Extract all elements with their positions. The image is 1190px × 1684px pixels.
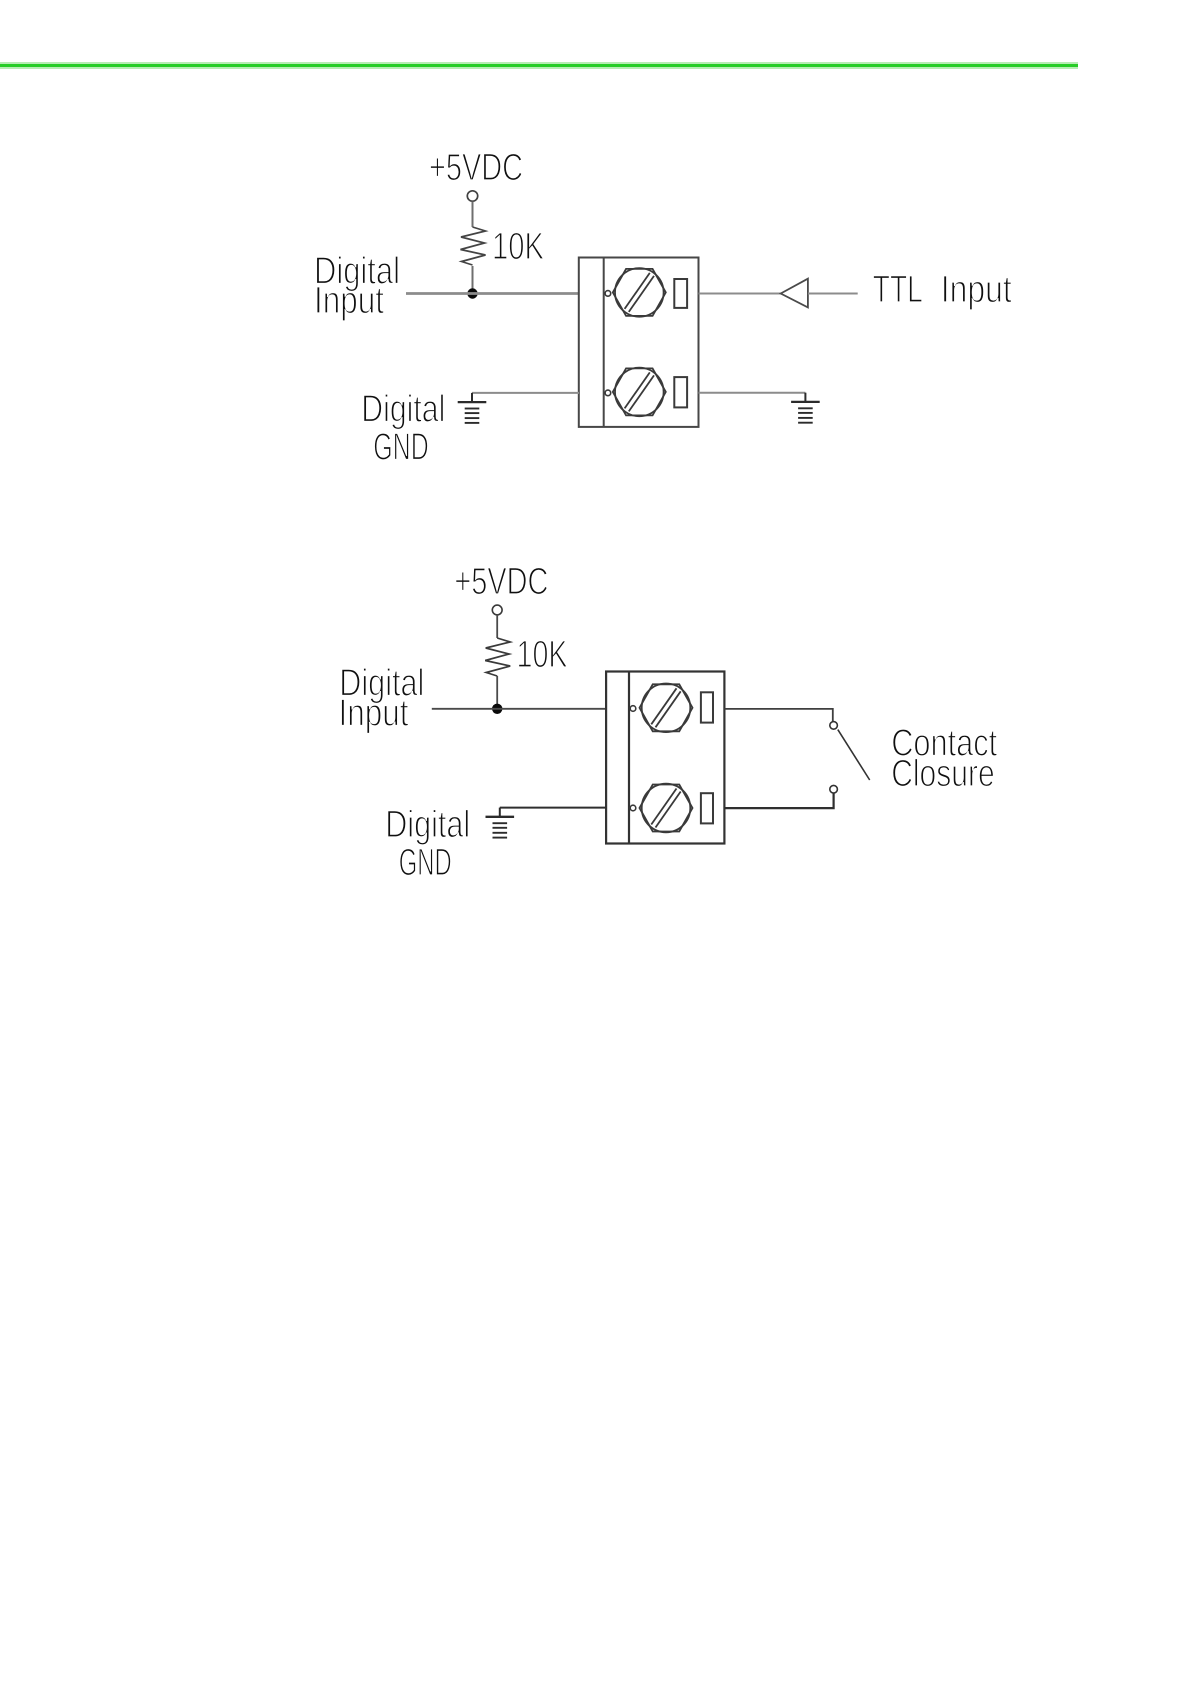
svg-text:+5VDC: +5VDC [429, 147, 523, 189]
wire [406, 292, 579, 295]
wire [724, 793, 833, 808]
pin 2 wire entry circle [630, 805, 636, 811]
svg-text:10K: 10K [517, 634, 568, 676]
+5VDC terminal circle [492, 605, 502, 615]
screw terminal pin 2 [640, 784, 693, 833]
screw terminal pin 1 [640, 684, 693, 733]
wire [472, 202, 474, 227]
ground right [791, 393, 820, 423]
wire [496, 676, 498, 709]
svg-text:Closure: Closure [891, 753, 995, 795]
switch arm [838, 730, 870, 780]
pin 1 clamp slot [701, 692, 713, 722]
pin 1 wire entry circle [630, 706, 636, 712]
pin 2 clamp slot [674, 377, 687, 407]
ground [486, 808, 515, 838]
svg-text:+5VDC: +5VDC [454, 561, 548, 603]
wire [724, 709, 832, 722]
resistor R 10K [461, 227, 486, 265]
TTL buffer triangle [781, 279, 808, 308]
pin 2 wire entry circle [605, 390, 611, 396]
screw terminal pin 1 [613, 268, 666, 317]
wire [472, 266, 474, 294]
pin 2 clamp slot [701, 793, 713, 823]
ground left [458, 393, 487, 423]
screw terminal pin 2 [613, 368, 666, 417]
node junction dot [467, 288, 477, 298]
pin 1 clamp slot [674, 279, 687, 308]
terminal block TB2 [606, 672, 724, 844]
svg-text:10K: 10K [492, 226, 544, 268]
svg-text:Digital: Digital [361, 389, 445, 431]
wire [808, 293, 858, 295]
svg-text:Digital: Digital [385, 804, 470, 846]
svg-text:Input: Input [314, 280, 384, 322]
resistor R 10K [485, 638, 510, 676]
wire [699, 392, 806, 394]
wire [496, 616, 498, 638]
wire [472, 392, 579, 394]
svg-text:GND: GND [373, 427, 428, 469]
wire [500, 807, 606, 809]
switch contact circle top [830, 722, 838, 730]
terminal block TB1 [579, 258, 699, 427]
switch contact circle bottom [830, 785, 838, 793]
pin 1 wire entry circle [605, 291, 611, 297]
node junction dot [492, 704, 502, 714]
+5VDC terminal circle [467, 191, 477, 201]
wire [699, 293, 782, 295]
wire [432, 708, 606, 710]
svg-text:Input: Input [339, 692, 409, 734]
svg-text:TTL: TTL [873, 269, 923, 311]
svg-text:Input: Input [941, 269, 1012, 311]
green header rule [0, 62, 1078, 69]
svg-text:GND: GND [399, 842, 452, 884]
